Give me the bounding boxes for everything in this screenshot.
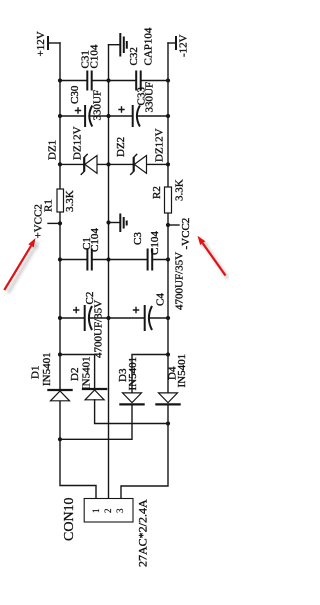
- node dot row318 mid: [106, 316, 110, 320]
- svg-text:IN5401: IN5401: [81, 356, 93, 390]
- wire +VCC2 stub: [48, 222, 60, 224]
- node -VCC2: [166, 223, 170, 227]
- node dot row318 left: [58, 316, 62, 320]
- svg-text:CAP104: CAP104: [143, 27, 155, 65]
- node dot D2 bus: [58, 352, 62, 356]
- wire left rail lower: [59, 212, 61, 391]
- wire right rail lower: [167, 213, 169, 393]
- svg-text:3: 3: [115, 508, 125, 513]
- power port +12V bar: [47, 36, 49, 50]
- wire left rail upper: [59, 43, 61, 190]
- svg-text:D2: D2: [69, 368, 81, 381]
- wire -VCC2 stub: [168, 224, 179, 226]
- svg-text:4700UF/35V: 4700UF/35V: [93, 300, 105, 358]
- capacitor C31: [87, 71, 91, 91]
- diode D2: [82, 388, 107, 390]
- red arrow left: [4, 246, 31, 290]
- wire AC2 bus: [95, 400, 168, 424]
- svg-text:D1: D1: [30, 366, 42, 379]
- node dot zener left: [58, 162, 62, 166]
- wire row C31/C32: [60, 80, 168, 82]
- zener diode DZ2: [134, 156, 146, 174]
- wire +12V stub: [48, 42, 60, 44]
- svg-text:C104: C104: [89, 228, 101, 252]
- node dot row116 mid: [106, 114, 110, 118]
- node +VCC2: [58, 221, 62, 225]
- svg-text:3.3K: 3.3K: [64, 190, 76, 212]
- svg-text:2: 2: [103, 509, 113, 514]
- svg-text:330UF: 330UF: [143, 82, 155, 113]
- node dot AC2: [166, 421, 170, 425]
- node dot zener mid: [106, 162, 110, 166]
- wire row C1/C3: [60, 259, 168, 261]
- node dot row81 right: [166, 78, 170, 82]
- svg-text:-VCC2: -VCC2: [180, 218, 192, 250]
- diode D4: [159, 393, 178, 403]
- svg-text:C3: C3: [132, 232, 144, 245]
- svg-text:+12V: +12V: [35, 31, 47, 56]
- capacitor C4: [144, 305, 146, 331]
- svg-text:330UF: 330UF: [92, 90, 104, 121]
- svg-text:27AC*2/2.4A: 27AC*2/2.4A: [136, 499, 150, 567]
- capacitor C2: [84, 305, 86, 331]
- svg-text:1: 1: [91, 509, 101, 514]
- wire D3 top bus: [132, 355, 168, 393]
- svg-text:DZ12V: DZ12V: [154, 128, 166, 162]
- capacitor C1: [87, 249, 91, 271]
- red arrow right shadow: [201, 239, 228, 279]
- node dot zener right: [166, 162, 170, 166]
- node dot row259 mid: [106, 257, 110, 261]
- svg-text:IN5401: IN5401: [41, 352, 53, 386]
- wire -12V stub: [168, 42, 176, 44]
- connector CON10: [84, 499, 133, 523]
- svg-text:DZ2: DZ2: [115, 137, 127, 157]
- diode D1: [47, 389, 72, 391]
- svg-text:C32: C32: [128, 47, 140, 65]
- node dot ground mid: [106, 220, 110, 224]
- capacitor C32: [136, 71, 141, 91]
- resistor R1: [57, 189, 64, 212]
- node dot row259 right: [166, 257, 170, 261]
- svg-text:IN5401: IN5401: [176, 354, 188, 388]
- node dot row259 left: [58, 257, 62, 261]
- node dot AC1: [58, 437, 62, 441]
- capacitor C33: [132, 105, 134, 127]
- wire row C2/C4: [60, 317, 168, 319]
- red arrow right: [203, 243, 226, 275]
- ground mid: [109, 222, 120, 224]
- svg-text:R2: R2: [151, 186, 163, 199]
- node dot row81 left: [58, 78, 62, 82]
- wire right rail upper: [167, 43, 169, 188]
- node dot row116 left: [58, 114, 62, 118]
- svg-text:3.3K: 3.3K: [174, 179, 186, 201]
- capacitor C3: [148, 249, 153, 271]
- node dot D3 bus: [166, 352, 170, 356]
- wire mid rail: [108, 45, 110, 499]
- node dot row318 right: [166, 316, 170, 320]
- svg-text:C104: C104: [149, 231, 161, 255]
- resistor R2: [165, 187, 172, 213]
- wire D2 top bus: [60, 355, 95, 389]
- wire row zeners: [60, 163, 168, 165]
- svg-text:DZ12V: DZ12V: [72, 126, 84, 160]
- diode D3: [123, 393, 142, 403]
- svg-text:4700UF/35V: 4700UF/35V: [174, 252, 186, 310]
- svg-text:-12V: -12V: [178, 34, 190, 57]
- wire AC1 bus: [60, 404, 132, 439]
- zener diode DZ1: [85, 156, 97, 174]
- svg-text:C104: C104: [89, 44, 101, 68]
- capacitor C30: [84, 105, 86, 127]
- svg-text:IN5401: IN5401: [127, 357, 139, 391]
- red arrow left shadow: [8, 241, 39, 294]
- ground top: [109, 44, 120, 46]
- svg-text:+VCC2: +VCC2: [33, 204, 45, 238]
- node dot row116 right: [166, 114, 170, 118]
- svg-text:C4: C4: [155, 293, 167, 306]
- svg-text:C30: C30: [69, 85, 81, 104]
- power port -12V bar: [175, 36, 177, 50]
- svg-text:CON10: CON10: [62, 497, 77, 541]
- node dot row81 mid: [106, 78, 110, 82]
- wire row C30/C33: [60, 115, 168, 117]
- svg-text:DZ1: DZ1: [47, 140, 59, 160]
